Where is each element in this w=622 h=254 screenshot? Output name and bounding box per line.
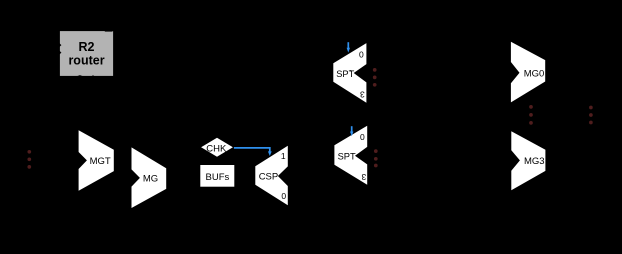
- block MG: [132, 147, 167, 208]
- ellipsis dots left (input links): [27, 150, 31, 169]
- svg-text:CSP: CSP: [259, 172, 279, 183]
- wire crossing R2 top edge near right corner: [105, 30, 113, 33]
- svg-text:SPT: SPT: [336, 69, 354, 79]
- svg-text:0: 0: [360, 132, 365, 142]
- svg-text:SPT: SPT: [338, 152, 356, 162]
- blue arrow into SPT top: [347, 42, 350, 52]
- ellipsis dots right of SPT top: [373, 68, 377, 87]
- svg-text:MG3: MG3: [524, 156, 545, 167]
- svg-text:MGT: MGT: [90, 156, 111, 167]
- block SPT (top): [333, 43, 366, 103]
- wire arrowhead at R2 bottom edge (left): [76, 75, 83, 76]
- ellipsis dots right (output links): [589, 106, 593, 125]
- svg-text:3: 3: [361, 172, 366, 182]
- svg-text:1: 1: [281, 151, 286, 161]
- block MGT: [79, 130, 114, 190]
- svg-text:MG: MG: [143, 173, 158, 184]
- block SPT (bottom): [334, 126, 367, 185]
- svg-text:0: 0: [359, 50, 364, 60]
- block R2 router: [60, 31, 113, 76]
- svg-text:BUFs: BUFs: [206, 172, 230, 183]
- svg-text:CHK: CHK: [206, 143, 227, 154]
- ellipsis dots between MG0 and MG3: [529, 105, 533, 125]
- wire arrowhead at SPT notch: [350, 70, 352, 71]
- wire arrowhead at R2 bottom edge (right): [91, 75, 94, 76]
- block MG3: [511, 131, 545, 190]
- blue arrow CHK to CSP: [234, 148, 272, 156]
- blue arrow into SPT bottom: [350, 126, 353, 136]
- svg-text:router: router: [68, 54, 104, 68]
- svg-text:3: 3: [360, 90, 365, 100]
- ellipsis dots right of SPT bottom: [374, 149, 378, 167]
- wire arrowhead into R2 left edge (lower): [60, 51, 62, 55]
- wire arrowhead into R2 left edge (upper): [60, 43, 62, 47]
- decision diamond CHK: [201, 138, 233, 157]
- block BUFs: [200, 165, 234, 187]
- block MG0: [511, 42, 545, 103]
- svg-text:R2: R2: [79, 40, 95, 54]
- block CSP: [255, 146, 287, 206]
- svg-text:MG0: MG0: [524, 68, 545, 79]
- svg-text:0: 0: [281, 191, 286, 201]
